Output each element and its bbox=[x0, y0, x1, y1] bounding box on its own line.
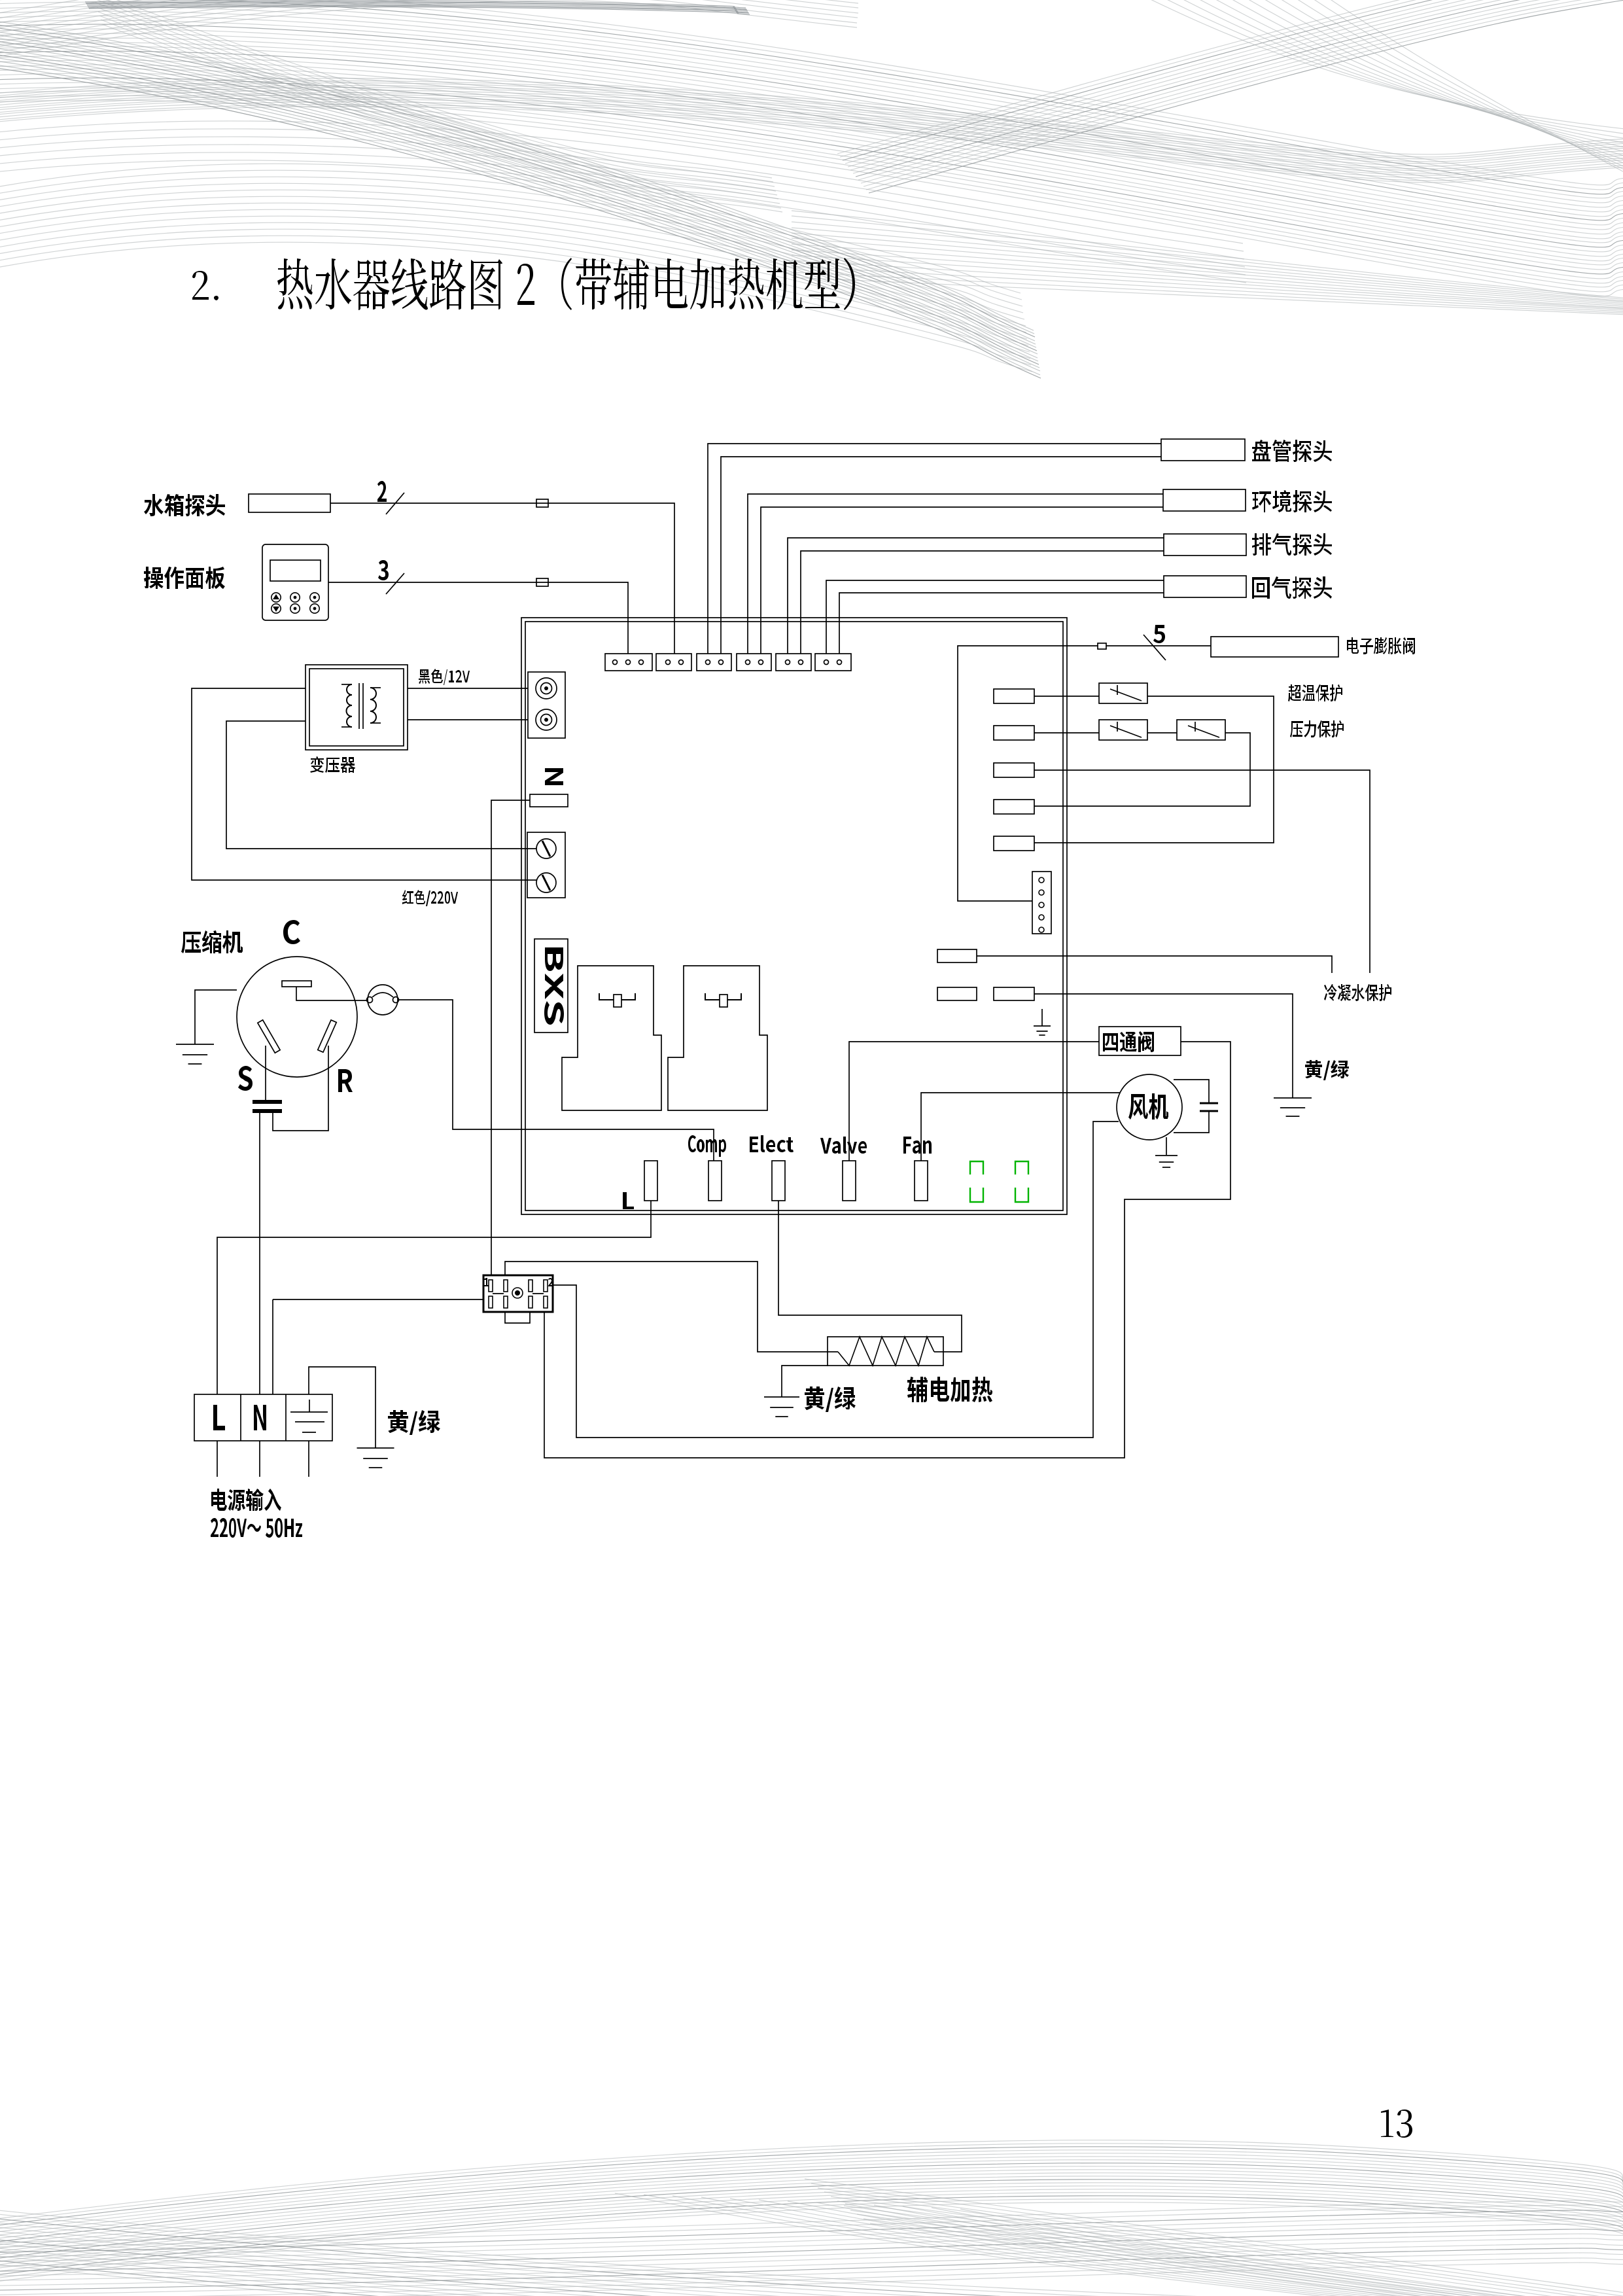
compressor pin S bbox=[258, 1020, 280, 1053]
compressor ground bbox=[176, 1044, 214, 1064]
wire TB1 to heater bbox=[505, 1262, 838, 1352]
connector CN6 bbox=[815, 654, 851, 671]
power lead PE below bbox=[308, 1441, 309, 1477]
label 盘管探头 bbox=[1252, 440, 1332, 462]
label 黄/绿 left bbox=[388, 1410, 440, 1435]
label 回气探头 bbox=[1252, 576, 1332, 599]
label Fan bbox=[903, 1137, 932, 1154]
label 风机 bbox=[1128, 1093, 1168, 1120]
label L output bbox=[623, 1192, 634, 1209]
wire probe2 to CN2 bbox=[330, 503, 674, 654]
decorative footer guilloche bbox=[0, 2140, 1623, 2296]
compressor body circle bbox=[237, 957, 357, 1077]
12V jack terminals bbox=[528, 672, 565, 738]
relay K1 outline bbox=[562, 966, 661, 1110]
wire S pin to capacitor bbox=[265, 1046, 266, 1100]
power lead N below bbox=[259, 1441, 260, 1477]
board connector R1 bbox=[994, 689, 1034, 703]
title text 热水器线路图2（带辅电加热机型） bbox=[277, 258, 855, 310]
board connector R5 bbox=[994, 836, 1034, 851]
output terminal Fan bbox=[915, 1161, 928, 1201]
label N (rotated) bbox=[545, 768, 563, 785]
label 红色/220V bbox=[402, 890, 458, 906]
decorative header guilloche bbox=[0, 0, 1623, 378]
wire compressor body to ground bbox=[195, 990, 237, 1044]
board ground stub bbox=[1034, 1026, 1051, 1035]
label 超温保护 bbox=[1288, 684, 1342, 701]
board connector R3 bbox=[994, 763, 1034, 777]
wire pair to 回气探头 bbox=[826, 580, 1164, 654]
label 黑色/12V bbox=[419, 669, 470, 685]
wire CN7 to expansion valve bbox=[958, 646, 1211, 901]
wire count slash 2 bbox=[386, 493, 404, 514]
fuse N bbox=[530, 794, 568, 807]
board connector R4 bbox=[994, 800, 1034, 814]
wire N cell to TB1 bbox=[273, 1299, 483, 1394]
wire panel3 to CN1 bbox=[328, 582, 628, 654]
operation panel bbox=[262, 544, 328, 620]
label S bbox=[238, 1066, 253, 1091]
wire R2 to pressure switch bbox=[1034, 732, 1099, 733]
output terminal Elect bbox=[772, 1161, 785, 1201]
pressure switch S2 bbox=[1099, 720, 1147, 740]
label 压力保护 bbox=[1290, 720, 1344, 737]
fan capacitor plates bbox=[1200, 1103, 1218, 1111]
power earth ground bbox=[357, 1448, 394, 1468]
label 排气探头 bbox=[1252, 533, 1332, 556]
wire RC to chassis ground bbox=[1034, 994, 1293, 1098]
wire overload to Comp terminal bbox=[398, 1000, 714, 1161]
wire PE to external ground bbox=[309, 1367, 375, 1448]
label 电源输入 bbox=[211, 1489, 281, 1511]
label Elect bbox=[750, 1135, 794, 1152]
connector CN3 bbox=[697, 654, 731, 671]
wire fan to ground bbox=[1166, 1137, 1167, 1155]
wire pair to 盘管探头 bbox=[708, 444, 1161, 654]
label 冷凝水保护 bbox=[1324, 984, 1391, 1001]
label 变压器 bbox=[310, 756, 355, 773]
wire S1 return to R5 bbox=[1034, 696, 1274, 843]
wire transformer secondary to 12V jacks bbox=[408, 688, 528, 720]
label Comp bbox=[688, 1135, 726, 1157]
compressor pin C bbox=[282, 981, 311, 987]
label L power bbox=[213, 1405, 225, 1430]
wire pair to 环境探头 bbox=[748, 494, 1163, 654]
220V screw terminals bbox=[527, 832, 565, 898]
label C bbox=[283, 920, 300, 944]
wire Valve terminal to four-way valve bbox=[849, 1042, 1099, 1161]
overload protector bbox=[367, 985, 399, 1015]
label TB terminal 2 bbox=[548, 1278, 553, 1286]
wire count label 2 bbox=[377, 481, 387, 502]
thermal cutout switch S1 bbox=[1099, 683, 1147, 703]
inline connector on wire 3 bbox=[536, 578, 548, 586]
wire C pin to overload bbox=[296, 987, 368, 1000]
transformer 变压器 bbox=[305, 665, 408, 750]
label 压缩机 bbox=[181, 930, 243, 953]
wire S2 to S3 bbox=[1147, 732, 1177, 733]
label Valve bbox=[820, 1137, 867, 1154]
output terminal Valve bbox=[843, 1161, 856, 1201]
board connector R2 bbox=[994, 726, 1034, 740]
pressure switch S3 bbox=[1177, 720, 1225, 740]
环境探头 body bbox=[1163, 489, 1246, 511]
wire Elect terminal to heater bbox=[778, 1201, 962, 1352]
control board outer border bbox=[521, 618, 1067, 1214]
relay K2 outline bbox=[668, 966, 767, 1110]
wire RA to condensate switch bbox=[977, 956, 1332, 973]
label 环境探头 bbox=[1252, 490, 1332, 512]
relay terminal block TB bbox=[483, 1275, 553, 1312]
wire count slash 5 bbox=[1143, 635, 1166, 660]
water tank probe body bbox=[249, 494, 330, 512]
connector CN4 bbox=[737, 654, 771, 671]
BXS box bbox=[534, 939, 568, 1033]
wire L terminal to power input L bbox=[217, 1201, 651, 1394]
wire count slash 3 bbox=[386, 573, 404, 594]
heater element zigzag bbox=[838, 1337, 934, 1366]
board connector RB bbox=[937, 987, 977, 1000]
label BXS (rotated) bbox=[544, 947, 564, 1025]
fan capacitor leads bbox=[1174, 1080, 1209, 1133]
output terminal Comp bbox=[708, 1161, 722, 1201]
electronic expansion valve body bbox=[1211, 637, 1338, 657]
display digit segments (green) bbox=[970, 1161, 1028, 1202]
TB bottom strap bbox=[505, 1312, 530, 1323]
board connector RA bbox=[937, 949, 977, 963]
title number bbox=[192, 271, 218, 300]
wire capacitor to N cell bbox=[259, 1113, 260, 1394]
chassis ground right bbox=[1274, 1098, 1312, 1116]
inline connector on wire 2 bbox=[536, 499, 548, 507]
PE cell ground symbol bbox=[290, 1400, 328, 1432]
inline connector on wire 5 bbox=[1098, 643, 1106, 649]
fan ground bbox=[1155, 1156, 1178, 1167]
fan motor circle 风机 bbox=[1117, 1074, 1182, 1140]
label N power bbox=[254, 1405, 266, 1430]
label 操作面板 bbox=[144, 567, 225, 589]
wire transformer primary to 220V screw lower bbox=[192, 688, 536, 880]
wire heater to ground bbox=[782, 1366, 828, 1397]
label 电子膨胀阀 bbox=[1347, 637, 1415, 654]
label 220V~ 50Hz bbox=[211, 1518, 302, 1538]
connector CN2 bbox=[656, 654, 691, 671]
wire R1 to thermal switch bbox=[1034, 696, 1099, 697]
label TB terminal 1 bbox=[484, 1278, 489, 1286]
回气探头 body bbox=[1164, 576, 1246, 597]
label R bbox=[338, 1069, 353, 1092]
page number 13 bbox=[1381, 2110, 1412, 2138]
run capacitor plates bbox=[253, 1100, 282, 1113]
power input block L/N/PE bbox=[194, 1394, 332, 1441]
board connector RC bbox=[994, 987, 1034, 1000]
wire S3 return to R4 bbox=[1034, 733, 1250, 806]
connector CN5 bbox=[776, 654, 811, 671]
output terminal L bbox=[644, 1161, 657, 1201]
power lead L below bbox=[217, 1441, 218, 1477]
label 黄/绿 right bbox=[1305, 1060, 1349, 1080]
wire fan motor neutral loop bbox=[553, 1122, 1119, 1438]
label 辅电加热 bbox=[907, 1377, 992, 1402]
four-way valve box 四通阀 bbox=[1099, 1027, 1181, 1055]
wire R pin to capacitor bottom bbox=[273, 1046, 328, 1131]
label 黄/绿 mid bbox=[805, 1386, 856, 1412]
wire four-way valve return to power N bbox=[544, 1042, 1230, 1458]
wire fuse to power terminal 1 bbox=[491, 800, 530, 1275]
wire R3 to condensate switch bbox=[1034, 770, 1370, 973]
wire count label 3 bbox=[378, 560, 389, 580]
盘管探头 body bbox=[1161, 439, 1245, 461]
relay K2 coil bbox=[705, 993, 741, 1007]
connector CN7 (5-pin) bbox=[1032, 872, 1051, 934]
heater ground bbox=[764, 1397, 799, 1417]
wire stub board ground bbox=[1041, 1009, 1043, 1026]
compressor pin R bbox=[318, 1020, 337, 1052]
relay K1 coil bbox=[599, 993, 635, 1007]
label 水箱探头 bbox=[144, 494, 225, 516]
control board inner border bbox=[525, 622, 1063, 1210]
wire transformer primary to 220V screw upper bbox=[226, 721, 536, 849]
label 四通阀 bbox=[1103, 1031, 1154, 1052]
wire pair to 排气探头 bbox=[788, 538, 1164, 654]
wire count label 5 bbox=[1153, 625, 1165, 643]
wire Fan terminal to fan motor bbox=[921, 1093, 1120, 1161]
heater body bbox=[828, 1337, 943, 1366]
connector CN1 bbox=[605, 654, 652, 671]
排气探头 body bbox=[1164, 534, 1246, 556]
